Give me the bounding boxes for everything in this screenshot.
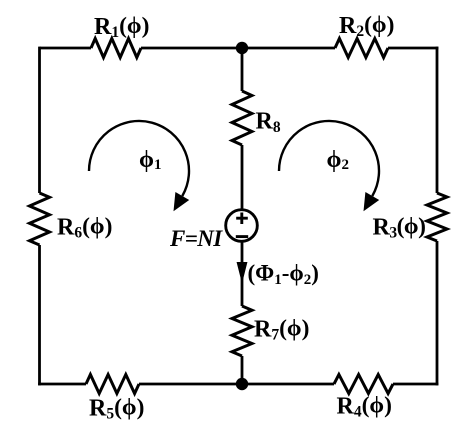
resistor R3 (427, 193, 447, 241)
flux loop arrow phi1 arc (89, 121, 189, 196)
wire right upper segment (436, 47, 439, 193)
resistor R4 (334, 375, 393, 394)
svg-text:R8: R8 (256, 109, 281, 137)
resistor R7 (232, 306, 252, 356)
wire middle below source (241, 242, 244, 306)
wire top-middle segment (141, 47, 335, 50)
svg-text:ϕ2: ϕ2 (327, 147, 349, 173)
svg-text:R2(ϕ): R2(ϕ) (339, 12, 394, 40)
wire left upper segment (38, 47, 41, 193)
resistor R2 (335, 39, 388, 58)
wire middle between R8 and source (241, 145, 244, 209)
svg-text:(Φ1-ϕ2): (Φ1-ϕ2) (248, 261, 319, 289)
svg-text:ϕ1: ϕ1 (139, 147, 161, 173)
source minus sign (236, 235, 248, 238)
svg-text:R3(ϕ): R3(ϕ) (373, 213, 426, 241)
wire right lower segment (436, 241, 439, 385)
source plus sign (236, 213, 248, 225)
flux loop arrow phi2 arc (279, 121, 379, 196)
wire middle lower segment (241, 356, 244, 384)
svg-text:R1(ϕ): R1(ϕ) (94, 13, 149, 41)
resistor R8 (232, 91, 252, 145)
wire bottom-middle segment (139, 383, 334, 386)
node bottom junction dot (236, 378, 248, 390)
resistor R6 (30, 193, 50, 245)
svg-text:R5(ϕ): R5(ϕ) (89, 394, 144, 422)
svg-text:F=NI: F=NI (169, 226, 223, 251)
flux loop arrow phi1 arrowhead (174, 192, 190, 211)
wire left lower segment (38, 245, 41, 385)
node top junction dot (236, 42, 248, 54)
svg-text:R7(ϕ): R7(ϕ) (254, 315, 309, 343)
wire top-left segment (40, 47, 92, 50)
flux direction arrow on middle wire (237, 263, 247, 282)
svg-text:R6(ϕ): R6(ϕ) (57, 213, 112, 241)
flux loop arrow phi2 arrowhead (364, 192, 380, 211)
resistor R1 (91, 39, 141, 58)
wire top-right segment (388, 47, 438, 50)
wire bottom-right segment (393, 383, 438, 386)
wire bottom-left segment (38, 383, 86, 386)
svg-text:R4(ϕ): R4(ϕ) (337, 392, 392, 420)
source U1 F=NI circle (226, 210, 258, 242)
wire middle upper segment (241, 48, 244, 91)
resistor R5 (86, 375, 139, 394)
